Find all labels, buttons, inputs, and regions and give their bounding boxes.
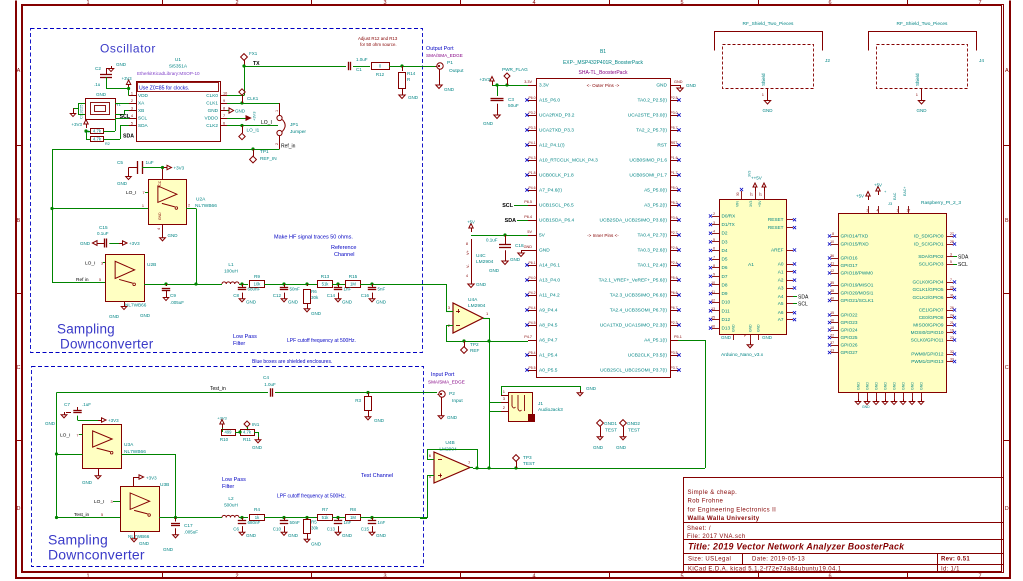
svg-text:4.7k: 4.7k	[243, 430, 252, 435]
svg-text:1: 1	[275, 110, 279, 112]
svg-text:P4.2: P4.2	[529, 291, 536, 295]
svg-text:GPIO19/MISO1: GPIO19/MISO1	[841, 283, 874, 288]
svg-text:0.1uF: 0.1uF	[97, 231, 109, 236]
svg-text:GND: GND	[593, 445, 604, 450]
svg-text:NL7WB66: NL7WB66	[195, 203, 217, 209]
svg-text:Input Port: Input Port	[431, 372, 455, 378]
svg-text:50nF: 50nF	[290, 520, 301, 525]
svg-text:MOSI0/GPIO10: MOSI0/GPIO10	[911, 330, 944, 335]
svg-text:NL7WB66: NL7WB66	[125, 303, 147, 308]
svg-text:D2: D2	[722, 231, 728, 236]
svg-text:5V: 5V	[527, 230, 532, 234]
svg-text:3V3: 3V3	[749, 201, 753, 207]
svg-text:C14: C14	[327, 293, 336, 298]
svg-text:35: 35	[830, 281, 834, 285]
svg-text:EAC: EAC	[893, 192, 897, 200]
svg-text:Channel: Channel	[334, 252, 355, 258]
svg-text:LPF cutoff frequency at 500Hz.: LPF cutoff frequency at 500Hz.	[277, 494, 346, 500]
svg-text:SDA: SDA	[958, 255, 969, 261]
svg-text:6: 6	[828, 574, 831, 580]
svg-text:Output Port: Output Port	[426, 46, 454, 52]
svg-text:Test Channel: Test Channel	[361, 473, 393, 479]
svg-text:+3V3: +3V3	[108, 418, 119, 423]
svg-text:Date: 2019-05-13: Date: 2019-05-13	[752, 557, 805, 563]
svg-text:LPF cutoff frequency at 500Hz.: LPF cutoff frequency at 500Hz.	[287, 338, 356, 344]
svg-text:Rev: 0.51: Rev: 0.51	[941, 557, 970, 563]
svg-text:R9: R9	[254, 274, 260, 279]
svg-text:LO_I: LO_I	[85, 261, 95, 267]
svg-text:4.7k: 4.7k	[93, 129, 102, 134]
svg-text:D4: D4	[722, 248, 728, 253]
svg-text:for Engineering Electronics II: for Engineering Electronics II	[688, 507, 777, 513]
svg-text:GND: GND	[524, 245, 533, 249]
svg-text:16: 16	[711, 324, 715, 328]
svg-text:5nF: 5nF	[378, 287, 386, 292]
svg-text:27: 27	[950, 232, 954, 236]
svg-text:A3_P5.2(!): A3_P5.2(!)	[644, 203, 667, 209]
svg-text:GND: GND	[408, 95, 419, 100]
svg-text:XB: XB	[138, 108, 144, 113]
svg-text:GND2: GND2	[627, 421, 640, 426]
svg-text:TEST: TEST	[628, 428, 640, 433]
svg-text:R2: R2	[105, 142, 110, 146]
svg-text:4: 4	[466, 274, 468, 278]
svg-text:TA0.2_P2.5(!): TA0.2_P2.5(!)	[637, 98, 667, 104]
svg-text:LO_I: LO_I	[261, 120, 272, 126]
svg-text:Oscillator: Oscillator	[100, 42, 156, 56]
svg-text:GND: GND	[109, 314, 120, 319]
svg-text:UCB1SDA_P6.4: UCB1SDA_P6.4	[539, 218, 575, 224]
svg-text:TP2: TP2	[470, 342, 479, 347]
svg-text:Filter: Filter	[233, 341, 245, 347]
svg-text:3: 3	[101, 262, 103, 266]
svg-text:A1: A1	[748, 262, 754, 268]
svg-text:CLK0: CLK0	[206, 93, 218, 98]
svg-text:5: 5	[680, 0, 683, 6]
svg-text:SMA/SMA_EDGE: SMA/SMA_EDGE	[428, 380, 465, 385]
svg-text:10: 10	[223, 92, 227, 96]
svg-text:13: 13	[711, 307, 715, 311]
svg-text:GPIO16: GPIO16	[841, 256, 858, 261]
svg-text:PWR_FLAG: PWR_FLAG	[502, 67, 528, 72]
svg-text:TA2.3_UCB3SIMO_P6.6(!): TA2.3_UCB3SIMO_P6.6(!)	[610, 293, 668, 299]
svg-text:TA0.1_P2.4(!): TA0.1_P2.4(!)	[637, 263, 667, 269]
svg-text:1.0uF: 1.0uF	[356, 57, 368, 62]
svg-text:5V: 5V	[539, 233, 546, 239]
svg-text:KiCad E.D.A. kicad 5.1.2-f72e: KiCad E.D.A. kicad 5.1.2-f72e74a84ubuntu…	[688, 566, 842, 572]
svg-text:51k: 51k	[322, 515, 330, 520]
svg-text:38: 38	[830, 289, 834, 293]
svg-text:11: 11	[830, 262, 834, 266]
svg-text:GND: GND	[732, 324, 736, 332]
svg-text:51k: 51k	[322, 282, 330, 287]
svg-text:D10: D10	[722, 300, 731, 305]
svg-text:6: 6	[713, 247, 715, 251]
svg-text:499: 499	[225, 430, 233, 435]
svg-text:L2: L2	[228, 496, 234, 501]
svg-text:A5: A5	[778, 301, 784, 306]
svg-text:Use Z0=85 for clocks.: Use Z0=85 for clocks.	[139, 86, 189, 92]
svg-text:GND: GND	[762, 335, 773, 340]
svg-text:LM2904: LM2904	[468, 303, 486, 309]
svg-text:GND: GND	[510, 257, 521, 262]
svg-text:P3.3: P3.3	[529, 126, 536, 130]
svg-text:500uH: 500uH	[224, 503, 238, 508]
svg-text:Shield: Shield	[761, 73, 766, 86]
svg-text:GPIO24: GPIO24	[841, 328, 858, 333]
svg-text:R7: R7	[322, 507, 328, 512]
svg-text:30: 30	[736, 192, 740, 196]
svg-text:R12: R12	[376, 72, 385, 77]
svg-text:GPIO27: GPIO27	[841, 350, 858, 355]
svg-text:P6.6: P6.6	[671, 291, 678, 295]
svg-text:Input: Input	[452, 398, 463, 404]
svg-text:U3B: U3B	[160, 482, 169, 488]
svg-text:UCA2STE_P3.0(!): UCA2STE_P3.0(!)	[628, 113, 668, 119]
svg-text:P4.3: P4.3	[529, 156, 536, 160]
svg-text:LO_I: LO_I	[60, 433, 70, 439]
svg-text:3: 3	[131, 107, 133, 111]
svg-text:GND: GND	[920, 382, 924, 390]
svg-text:GND: GND	[489, 268, 500, 273]
svg-text:10: 10	[830, 240, 834, 244]
svg-text:D11: D11	[722, 308, 731, 313]
svg-text:GND: GND	[893, 382, 897, 390]
svg-text:P6.4: P6.4	[524, 215, 532, 219]
svg-text:5: 5	[950, 260, 952, 264]
svg-text:B: B	[17, 218, 21, 224]
svg-text:GND: GND	[866, 382, 870, 390]
svg-text:P4.4: P4.4	[529, 306, 536, 310]
svg-text:U2A: U2A	[196, 197, 206, 203]
svg-text:U4B: U4B	[445, 440, 454, 446]
svg-text:4: 4	[131, 114, 133, 118]
svg-text:.005uF: .005uF	[184, 530, 198, 535]
svg-text:28: 28	[950, 240, 954, 244]
svg-text:GND: GND	[911, 382, 915, 390]
svg-text:GPIO23: GPIO23	[841, 320, 858, 325]
svg-text:D3: D3	[722, 239, 728, 244]
svg-text:P3.7: P3.7	[671, 366, 678, 370]
svg-text:R14: R14	[407, 71, 416, 76]
svg-text:C10: C10	[273, 527, 282, 532]
svg-text:GND: GND	[252, 445, 263, 450]
svg-text:GND: GND	[483, 121, 494, 126]
svg-text:3: 3	[383, 0, 386, 6]
svg-text:GND: GND	[476, 282, 487, 287]
svg-text:C17: C17	[184, 523, 193, 528]
svg-text:FX1: FX1	[249, 51, 258, 56]
svg-text:D0/RX: D0/RX	[722, 214, 737, 219]
svg-text:1.0uF: 1.0uF	[264, 382, 276, 387]
svg-text:A0: A0	[778, 262, 784, 267]
svg-text:REF: REF	[470, 348, 480, 353]
svg-text:P4.5: P4.5	[529, 321, 536, 325]
svg-text:TP3: TP3	[523, 455, 532, 460]
svg-text:R13: R13	[321, 274, 330, 279]
svg-text:L1: L1	[228, 262, 234, 267]
svg-text:Ref_in: Ref_in	[281, 144, 296, 150]
svg-text:RF_Shield_Two_Pieces: RF_Shield_Two_Pieces	[743, 21, 795, 27]
svg-text:P5.6: P5.6	[671, 276, 678, 280]
svg-text:7: 7	[978, 0, 981, 6]
svg-text:C15: C15	[361, 527, 370, 532]
svg-text:4: 4	[532, 574, 535, 580]
svg-text:A13_P4.0: A13_P4.0	[539, 278, 560, 284]
svg-text:P2.6: P2.6	[671, 246, 678, 250]
svg-text:P4.6: P4.6	[529, 186, 536, 190]
svg-text:File: 2017 VNA.sch: File: 2017 VNA.sch	[687, 534, 746, 540]
svg-text:A: A	[17, 68, 21, 74]
svg-text:8: 8	[223, 107, 225, 111]
svg-text:32: 32	[950, 350, 954, 354]
svg-text:GND: GND	[208, 108, 219, 113]
svg-text:GND: GND	[376, 300, 387, 305]
svg-text:1: 1	[131, 92, 133, 96]
svg-text:ID_SC/GPIO1: ID_SC/GPIO1	[914, 242, 944, 247]
svg-text:+5V: +5V	[758, 200, 762, 207]
svg-text:P6.0: P6.0	[529, 96, 536, 100]
svg-text:RF_Shield_Two_Pieces: RF_Shield_Two_Pieces	[897, 21, 949, 27]
svg-text:A12_P4.1(!): A12_P4.1(!)	[539, 143, 565, 149]
svg-text:6: 6	[223, 122, 225, 126]
svg-text:VCC: VCC	[158, 180, 162, 188]
svg-text:7: 7	[223, 114, 225, 118]
svg-text:GND: GND	[163, 547, 174, 552]
svg-text:P3.2: P3.2	[529, 111, 536, 115]
svg-text:-> Inner Pins <-: -> Inner Pins <-	[587, 233, 619, 238]
svg-text:Blue boxes are shielded enclos: Blue boxes are shielded enclosures.	[252, 359, 332, 365]
svg-text:1uF: 1uF	[146, 160, 154, 165]
svg-text:GND: GND	[721, 335, 732, 340]
svg-text:A8_P4.5: A8_P4.5	[539, 323, 558, 329]
svg-text:D1/TX: D1/TX	[722, 222, 736, 227]
svg-text:SCL: SCL	[138, 116, 148, 121]
svg-text:7: 7	[713, 255, 715, 259]
svg-text:P3.5: P3.5	[671, 351, 678, 355]
svg-text:R6: R6	[311, 289, 317, 294]
svg-text:GND: GND	[757, 324, 761, 332]
svg-text:B: B	[1005, 218, 1009, 224]
svg-text:2: 2	[275, 143, 279, 145]
svg-text:GND: GND	[674, 80, 683, 84]
svg-text:GND: GND	[235, 109, 246, 114]
svg-text:PWM0/GPIO12: PWM0/GPIO12	[911, 352, 944, 357]
svg-text:C: C	[17, 365, 21, 371]
svg-text:Make HF signal traces 50 ohms.: Make HF signal traces 50 ohms.	[274, 235, 353, 241]
svg-text:5: 5	[101, 513, 103, 517]
svg-text:GND: GND	[246, 533, 257, 538]
svg-text:Arduino_Nano_v3.x: Arduino_Nano_v3.x	[721, 352, 764, 358]
svg-text:SHA-TL_BoosterPack: SHA-TL_BoosterPack	[579, 70, 628, 76]
svg-text:++5V: ++5V	[751, 176, 762, 181]
svg-text:SDA: SDA	[505, 218, 516, 224]
svg-text:Y1: Y1	[116, 102, 122, 107]
svg-text:7: 7	[143, 191, 145, 195]
svg-text:A4_P5.1(!): A4_P5.1(!)	[644, 338, 667, 344]
svg-text:4.7k: 4.7k	[93, 137, 102, 142]
svg-text:3V3: 3V3	[748, 171, 752, 177]
svg-text:SDA: SDA	[123, 134, 134, 140]
svg-text:A6_P4.7: A6_P4.7	[539, 338, 558, 344]
svg-text:GND: GND	[862, 405, 870, 409]
svg-text:P6.5: P6.5	[524, 200, 532, 204]
svg-text:A: A	[1005, 68, 1009, 74]
svg-text:27: 27	[750, 192, 754, 196]
svg-text:C13: C13	[327, 527, 336, 532]
svg-text:2: 2	[235, 574, 238, 580]
svg-text:Simple & cheap.: Simple & cheap.	[688, 490, 738, 496]
svg-text:B1: B1	[600, 49, 606, 55]
svg-text:GND: GND	[376, 533, 387, 538]
svg-text:Downconverter: Downconverter	[60, 337, 154, 352]
svg-text:A7_P4.6(!): A7_P4.6(!)	[539, 188, 562, 194]
svg-text:P5.4: P5.4	[529, 351, 536, 355]
svg-text:+3V3: +3V3	[479, 77, 490, 82]
svg-text:12: 12	[711, 298, 715, 302]
svg-text:29: 29	[950, 286, 954, 290]
svg-text:A11_P4.2: A11_P4.2	[539, 293, 560, 299]
svg-text:GPIO15/RXD: GPIO15/RXD	[841, 242, 870, 247]
svg-text:SCL/GPIO3: SCL/GPIO3	[919, 262, 944, 267]
svg-text:GPIO17: GPIO17	[841, 263, 858, 268]
svg-text:C7: C7	[64, 402, 70, 407]
svg-text:GND: GND	[749, 324, 753, 332]
svg-text:P2.5: P2.5	[671, 96, 678, 100]
svg-text:R15: R15	[349, 274, 358, 279]
svg-text:J1: J1	[538, 401, 543, 407]
svg-text:P5.5: P5.5	[529, 366, 536, 370]
svg-text:Id: 1/1: Id: 1/1	[941, 566, 960, 572]
svg-text:18: 18	[830, 326, 834, 330]
svg-text:REF_IN: REF_IN	[260, 156, 277, 161]
svg-text:Downconverter: Downconverter	[48, 547, 145, 563]
svg-text:SCL: SCL	[502, 203, 513, 209]
svg-text:31: 31	[950, 294, 954, 298]
svg-text:Adjust R12 and R13: Adjust R12 and R13	[358, 36, 398, 41]
svg-text:+3V3: +3V3	[71, 122, 82, 127]
svg-text:TA2.1_VREF+_VeREF+_P5.6(!): TA2.1_VREF+_VeREF+_P5.6(!)	[599, 278, 668, 284]
svg-text:1nF: 1nF	[344, 287, 352, 292]
svg-text:4: 4	[532, 0, 535, 6]
svg-text:GND: GND	[857, 382, 861, 390]
svg-text:GND: GND	[80, 241, 91, 246]
svg-text:C12: C12	[273, 293, 282, 298]
svg-text:A9_P4.4: A9_P4.4	[539, 308, 558, 314]
svg-text:R10: R10	[220, 437, 229, 442]
svg-text:19: 19	[950, 329, 954, 333]
svg-text:2: 2	[235, 0, 238, 6]
svg-text:P2.7: P2.7	[671, 231, 678, 235]
svg-text:D7: D7	[722, 274, 728, 279]
svg-text:Shield: Shield	[915, 73, 920, 86]
svg-text:TA2_2_P5.7(!): TA2_2_P5.7(!)	[636, 128, 667, 134]
svg-text:23: 23	[950, 336, 954, 340]
svg-text:Sampling: Sampling	[57, 322, 115, 337]
svg-text:P5.2: P5.2	[671, 201, 678, 205]
svg-text:24: 24	[950, 314, 954, 318]
svg-text:D5: D5	[722, 257, 728, 262]
svg-text:CE1/GPIO7: CE1/GPIO7	[919, 308, 944, 313]
svg-text:CE0/GPIO8: CE0/GPIO8	[919, 315, 944, 320]
svg-text:C15: C15	[99, 225, 108, 230]
svg-text:680nF: 680nF	[248, 520, 261, 525]
svg-text:A1_P5.4: A1_P5.4	[539, 353, 558, 359]
svg-text:A10_RTCCLK_MCLK_P4.3: A10_RTCCLK_MCLK_P4.3	[539, 158, 598, 164]
svg-text:P5.0: P5.0	[671, 186, 678, 190]
svg-text:EXP-_MSP432P401R_BoosterPack: EXP-_MSP432P401R_BoosterPack	[563, 60, 644, 66]
svg-text:2: 2	[867, 209, 869, 213]
svg-text:.005uF: .005uF	[170, 300, 184, 305]
svg-text:GND1: GND1	[604, 421, 617, 426]
svg-text:R3: R3	[355, 398, 361, 403]
svg-text:GND: GND	[158, 212, 162, 220]
svg-text:P2: P2	[449, 391, 455, 397]
svg-text:TA0.3_P2.6(!): TA0.3_P2.6(!)	[637, 248, 667, 254]
svg-text:UCA1TXD_UCA1SIMO_P2.3(!): UCA1TXD_UCA1SIMO_P2.3(!)	[600, 323, 668, 329]
svg-text:V+: V+	[466, 249, 470, 255]
svg-text:9: 9	[713, 273, 715, 277]
svg-text:3: 3	[111, 500, 113, 504]
svg-text:UCB0SIMO_P1.6: UCB0SIMO_P1.6	[629, 158, 667, 164]
svg-text:4: 4	[157, 228, 161, 230]
svg-text:+3V3: +3V3	[174, 166, 185, 171]
svg-text:A14_P6.1: A14_P6.1	[539, 263, 560, 269]
svg-text:7: 7	[950, 278, 952, 282]
svg-text:SMA/SMA_EDGE: SMA/SMA_EDGE	[426, 53, 463, 58]
svg-text:1nF: 1nF	[378, 520, 386, 525]
svg-text:1: 1	[142, 204, 144, 208]
svg-text:C4: C4	[263, 375, 269, 380]
svg-text:P4.0: P4.0	[529, 276, 536, 280]
svg-text:100uH: 100uH	[224, 269, 238, 274]
svg-text:EtherkitKicadLibrary:MSOP-10: EtherkitKicadLibrary:MSOP-10	[137, 71, 200, 76]
svg-text:10: 10	[711, 281, 715, 285]
svg-text:3.3V: 3.3V	[539, 83, 550, 89]
svg-text:9: 9	[223, 99, 225, 103]
svg-text:+5V: +5V	[856, 194, 864, 199]
svg-text:UCB2CLK_P3.5(!): UCB2CLK_P3.5(!)	[628, 353, 668, 359]
svg-text:GND: GND	[288, 533, 299, 538]
svg-text:33: 33	[950, 358, 954, 362]
svg-text:GND: GND	[96, 92, 107, 97]
svg-text:UCB2SDA_UCB2SIMO_P3.6(!): UCB2SDA_UCB2SIMO_P3.6(!)	[600, 218, 668, 224]
svg-text:Low Pass: Low Pass	[233, 334, 257, 340]
svg-text:VDD: VDD	[138, 93, 149, 98]
svg-text:J2: J2	[825, 58, 830, 64]
svg-text:36: 36	[830, 254, 834, 258]
svg-text:A15_P6.0: A15_P6.0	[539, 98, 560, 104]
svg-text:13: 13	[830, 349, 834, 353]
svg-text:P1.6: P1.6	[671, 156, 678, 160]
svg-text:GND: GND	[884, 382, 888, 390]
svg-text:C5: C5	[117, 160, 123, 165]
svg-text:P1: P1	[447, 60, 453, 66]
svg-text:15: 15	[711, 316, 715, 320]
svg-text:for 50 ohm source.: for 50 ohm source.	[360, 42, 397, 47]
svg-text:Si5351A: Si5351A	[169, 64, 188, 70]
svg-text:+3V3: +3V3	[252, 111, 257, 121]
svg-text:GND: GND	[116, 62, 127, 67]
svg-text:P1.8: P1.8	[529, 171, 536, 175]
svg-text:5: 5	[713, 238, 715, 242]
svg-text:GPIO21/SCLK1: GPIO21/SCLK1	[841, 298, 874, 303]
svg-text:GND: GND	[311, 311, 322, 316]
svg-text:50uF: 50uF	[508, 103, 519, 108]
svg-text:A7: A7	[778, 317, 784, 322]
svg-text:U4C: U4C	[476, 253, 486, 259]
svg-text:GPIO22: GPIO22	[841, 313, 858, 318]
